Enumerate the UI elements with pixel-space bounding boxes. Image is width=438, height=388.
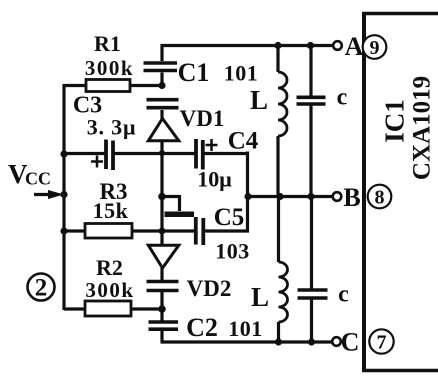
- svg-text:A: A: [345, 32, 364, 61]
- svg-text:R2: R2: [96, 255, 123, 280]
- svg-text:101: 101: [228, 316, 263, 341]
- svg-text:7: 7: [377, 332, 387, 354]
- svg-text:3. 3μ: 3. 3μ: [87, 115, 136, 140]
- svg-text:B: B: [343, 183, 360, 212]
- svg-text:L: L: [250, 85, 268, 115]
- svg-text:300k: 300k: [85, 56, 134, 80]
- svg-text:10μ: 10μ: [197, 167, 232, 192]
- svg-text:101: 101: [224, 61, 259, 86]
- svg-text:CXA1019: CXA1019: [409, 76, 436, 180]
- svg-text:VD2: VD2: [187, 276, 232, 301]
- svg-text:103: 103: [215, 239, 250, 264]
- svg-text:C2: C2: [186, 313, 218, 342]
- svg-text:L: L: [251, 282, 269, 312]
- svg-text:8: 8: [375, 187, 385, 209]
- svg-text:C: C: [341, 328, 360, 357]
- svg-text:15k: 15k: [93, 198, 129, 223]
- svg-text:R1: R1: [94, 31, 121, 56]
- svg-text:C1: C1: [178, 58, 210, 87]
- svg-text:9: 9: [370, 37, 380, 59]
- svg-text:C5: C5: [214, 204, 245, 231]
- svg-text:2: 2: [35, 275, 48, 302]
- svg-text:C4: C4: [228, 128, 259, 155]
- svg-text:c: c: [337, 85, 348, 111]
- svg-text:c: c: [338, 282, 349, 308]
- svg-text:VD1: VD1: [180, 106, 225, 131]
- svg-text:300k: 300k: [85, 278, 134, 302]
- svg-text:CC: CC: [25, 169, 51, 189]
- svg-text:IC1: IC1: [380, 99, 410, 143]
